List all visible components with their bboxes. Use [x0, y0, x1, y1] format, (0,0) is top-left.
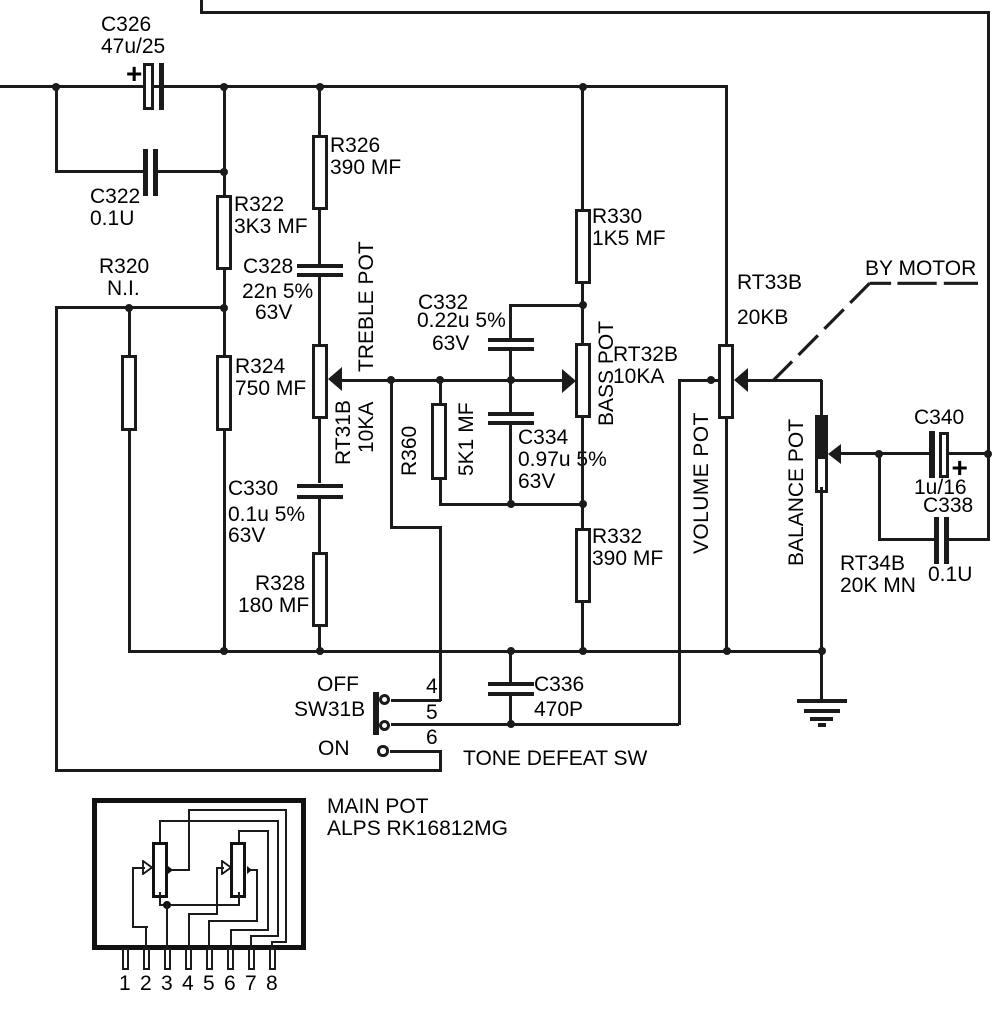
wire gang B wiper lead [251, 869, 258, 871]
node C340-right vertical [984, 450, 992, 458]
node main-R326 [316, 83, 324, 91]
capacitor C336 plate 2 [488, 692, 534, 696]
ground bar 1 [797, 699, 847, 703]
capacitor C340 label [914, 407, 964, 429]
switch contact pin4 [379, 694, 391, 706]
capacitor C326 label [101, 14, 165, 58]
capacitor C322 plate 2 [153, 149, 158, 196]
wire bottom bus y651 [128, 650, 823, 653]
label SW31B [294, 699, 365, 721]
wiper link horizontal y380 [340, 379, 563, 382]
main pot gang B body [230, 842, 246, 898]
pin 5 stub [206, 948, 213, 970]
wire C338 left lead [878, 538, 934, 541]
resistor R322 label [234, 194, 308, 238]
gang A input arrow [142, 860, 153, 875]
wire R360 top lead [439, 380, 442, 404]
resistor R330 [575, 209, 591, 284]
capacitor C328 plate 1 [297, 264, 343, 268]
potentiometer RT33B volume body [718, 344, 734, 419]
node main-R322 [220, 83, 228, 91]
capacitor C338 value [928, 564, 972, 586]
wire gang A wiper to pin8 [271, 941, 273, 949]
pin 8 stub [269, 948, 276, 970]
wire pin6 return horizontal y771 [55, 769, 442, 772]
label RT32B [613, 344, 678, 388]
label RT33B [737, 272, 802, 294]
capacitor C340 plus sign [952, 457, 968, 479]
capacitor C328 plate 2 [297, 273, 343, 277]
wire gang B wiper to pin5 [208, 920, 210, 949]
wire pin5 horizontal [391, 723, 679, 726]
wire pin6 return vertical x56 [55, 306, 58, 772]
label BALANCE POT vertical [786, 419, 808, 566]
wire R360 bottom lead [439, 480, 442, 506]
resistor R330 label [592, 206, 666, 250]
wire gang B top to pin6 [230, 929, 232, 949]
capacitor C334 label [518, 427, 568, 449]
pin numbers [119, 973, 131, 995]
ground bar 4 [818, 723, 826, 727]
capacitor C336 bottom lead [509, 696, 512, 725]
capacitor C332 plate 2 [488, 347, 534, 351]
resistor R360 [431, 403, 447, 480]
gang B input arrow [221, 860, 232, 875]
node bass top [579, 301, 587, 309]
label RT31B 10KA vertical [333, 400, 355, 465]
wire gang A top right drop [277, 820, 279, 937]
node balance-C338 [875, 450, 883, 458]
wire gang B arrow lead [216, 867, 224, 869]
node bus-balance [818, 647, 826, 655]
node C336-pin5 [507, 720, 515, 728]
ground bar 3 [810, 717, 833, 721]
resistor R322 [216, 195, 232, 270]
wire volume left stub [678, 379, 718, 382]
potentiometer RT34B balance body white [815, 456, 828, 493]
wire R360 bottom horizontal y504 [439, 503, 585, 506]
wire C332 bottom lead [509, 351, 512, 381]
pin 4 stub [185, 948, 192, 970]
wire gang A top horizontal [159, 820, 280, 822]
capacitor C330 plate 1 [297, 484, 343, 488]
wire gang A wiper right drop [285, 809, 287, 943]
label BY MOTOR [865, 258, 976, 280]
capacitor C338 plate 1 [934, 517, 939, 564]
wire pin4 horizontal [391, 699, 441, 702]
wire main horizontal bus y86 [0, 85, 726, 88]
wire volume wiper horizontal [747, 379, 822, 382]
wire C332 top lead [509, 304, 512, 339]
wire gang bottoms horizontal [159, 904, 240, 906]
potentiometer RT32B wiper arrow [562, 369, 576, 393]
wire drop vertical x440 to switch pin4 [439, 526, 442, 701]
wire gang B top bottom step [230, 929, 269, 931]
wire gang B bottom lead [238, 892, 240, 906]
wire pin6 corner vertical x440 [439, 750, 442, 772]
wire R324 bottom lead [223, 431, 226, 653]
capacitor C332 label [418, 292, 468, 314]
node bus-R324 [220, 647, 228, 655]
switch contact pin5 [379, 720, 391, 732]
resistor R328 label [255, 573, 305, 595]
wire gang B top lead [238, 830, 240, 842]
node bus-volume [723, 647, 731, 655]
resistor R328 value [238, 595, 309, 617]
potentiometer RT32B bass body [575, 343, 591, 418]
wire gang A wiper top horizontal [188, 809, 288, 811]
gang B wiper triangle [247, 866, 252, 874]
resistor R328 [312, 552, 328, 627]
capacitor C340 positive plate [939, 432, 949, 478]
wire C338 left vertical x879 [878, 452, 881, 541]
capacitor C334 value [518, 449, 607, 471]
capacitor C340 negative plate [929, 431, 935, 478]
wire gang B wiper drop [256, 869, 258, 922]
wire pin6 horizontal [390, 750, 442, 753]
wire gang A bottom lead [159, 892, 161, 906]
wire gang B top horizontal [238, 830, 270, 832]
label R360 vertical [399, 426, 421, 476]
gang A wiper triangle [168, 866, 173, 874]
capacitor C336 top lead [509, 651, 512, 683]
node volume left [707, 376, 715, 384]
potentiometer RT34B wiper arrow [828, 444, 841, 464]
capacitor C330 plate 2 [297, 495, 343, 499]
wire R330 to bass pot [581, 284, 584, 343]
resistor R332 label [592, 526, 663, 570]
wire C326 right to junction [163, 85, 224, 88]
node bus-R332 [579, 647, 587, 655]
capacitor C334 voltage [518, 471, 555, 493]
wire top bus corner vertical [200, 0, 203, 13]
node R322-R324 [220, 304, 228, 312]
wire gang A arrow step [132, 926, 148, 928]
node main-R330 [579, 83, 587, 91]
label 20KB [737, 307, 788, 329]
capacitor C334 plate 2 [488, 421, 534, 425]
wire top bus horizontal [200, 11, 990, 14]
node main-C322 left [52, 83, 60, 91]
wire R330 top lead [581, 85, 584, 210]
pin 6 stub [227, 948, 234, 970]
capacitor C326 positive plate [143, 63, 154, 110]
node R322-R324 line left [125, 304, 133, 312]
label VOLUME POT vertical [691, 412, 713, 554]
capacitor C338 label [923, 495, 973, 517]
capacitor C322 label [90, 186, 140, 230]
resistor R320 [121, 355, 137, 431]
wire gang B arrow step [188, 913, 218, 915]
label TREBLE POT vertical [356, 241, 378, 372]
capacitor C326 plus sign [126, 63, 142, 85]
label 5K1 MF vertical [456, 402, 478, 476]
pin 3 stub [164, 948, 171, 970]
potentiometer RT31B treble body [312, 344, 328, 419]
wire gang B arrow to pin4 [188, 913, 190, 950]
resistor R326 [312, 135, 328, 210]
resistor R326 label [330, 135, 401, 179]
capacitor C330 label [228, 478, 278, 500]
node wiper-R360 [436, 376, 444, 384]
wire C334 top lead [509, 380, 512, 412]
capacitor C330 value [228, 504, 305, 526]
wire C322 right lead [158, 170, 225, 173]
wire pin5 riser x679 [678, 380, 681, 725]
resistor R320 label N.I. [107, 278, 140, 300]
resistor R332 [575, 528, 591, 603]
resistor R320 label [99, 256, 149, 278]
wire C334 bottom lead [509, 425, 512, 504]
wire gang A wiper bottom step [271, 941, 287, 943]
capacitor C330 voltage [228, 525, 265, 547]
capacitor C336 value [534, 699, 583, 721]
wire R326 top lead [318, 85, 321, 136]
capacitor C336 label [534, 674, 584, 696]
capacitor C326 negative plate [159, 63, 164, 110]
wire R332 bottom lead [581, 603, 584, 653]
node gang bottoms junction [163, 901, 171, 909]
node bus-C336 [507, 647, 515, 655]
wire C330 to R328 [318, 498, 321, 553]
wire node horizontal y307 [55, 306, 225, 309]
wire volume top vertical x726 [725, 85, 728, 344]
capacitor C328 value [242, 281, 313, 303]
wire R326 to C328 [318, 210, 321, 265]
wire drop horizontal y526 [390, 526, 442, 529]
capacitor C334 plate 1 [488, 412, 534, 416]
MAIN POT BOX [92, 798, 306, 950]
wire bass pot bottom [581, 417, 584, 528]
node bus-R328 [316, 647, 324, 655]
label pin 5 [426, 702, 438, 724]
wire C340 right lead [949, 452, 988, 455]
wire C328 to treble pot [318, 277, 321, 345]
resistor R324 label [235, 356, 306, 400]
capacitor C332 plate 1 [488, 338, 534, 342]
wire gang A wiper lead [172, 869, 189, 871]
ground bar 2 [804, 709, 840, 713]
wire gang B top right drop [267, 830, 269, 931]
wire C332 top horizontal y305 [509, 304, 583, 307]
wire gang B arrow vertical [216, 867, 218, 915]
capacitor C328 label [243, 256, 293, 278]
wire balance bottom lead [820, 487, 823, 703]
wire C338 right lead [948, 538, 989, 541]
label pin 6 [426, 727, 438, 749]
node wiper-drop [387, 376, 395, 384]
wire balance wiper horizontal [841, 452, 929, 455]
ground stub [820, 651, 823, 701]
pin 2 stub [143, 948, 150, 970]
label MAIN POT [327, 796, 508, 840]
capacitor C336 plate 1 [488, 682, 534, 686]
wire junction to pin3 [166, 904, 168, 949]
wire R328 bottom lead [318, 627, 321, 653]
wire C322 left lead [55, 170, 144, 173]
wire gang A top lead [159, 820, 161, 842]
capacitor C332 value [417, 310, 506, 332]
wire gang A arrow lead [132, 867, 145, 869]
node wiper-C332 [507, 376, 515, 384]
wire R320 top lead [128, 306, 131, 356]
label RT34B 20K MN [840, 553, 916, 597]
wire vertical x56 main to C322 [55, 85, 58, 172]
pin 1 stub [122, 948, 129, 970]
wire gang A top bottom step [250, 935, 279, 937]
wire R320 bottom lead [128, 431, 131, 652]
label pin 4 [426, 676, 438, 698]
switch actuator bar [373, 692, 379, 735]
label TONE DEFEAT SW [463, 748, 647, 770]
wire right vertical from top bus to C340 node [987, 11, 990, 541]
wire vertical x224 main to R322 [223, 85, 226, 196]
switch contact pin6 [377, 745, 389, 757]
wire treble pot bottom to C330 [318, 419, 321, 483]
wire gang B wiper bottom step [208, 920, 258, 922]
main pot gang A body [152, 842, 168, 898]
node C322-R322 [220, 168, 228, 176]
potentiometer RT34B balance body black [815, 415, 828, 457]
resistor R324 [216, 355, 232, 431]
label ON [318, 738, 350, 760]
capacitor C332 voltage [432, 333, 469, 355]
capacitor C338 plate 2 [944, 517, 949, 564]
node C334 bottom [507, 500, 515, 508]
pin 7 stub [248, 948, 255, 970]
potentiometer RT33B wiper arrow [734, 368, 748, 392]
capacitor C322 plate 1 [143, 149, 148, 196]
wire vertical x224 R322 to R324 [223, 270, 226, 356]
dashed motor link diagonal and horizontal [760, 255, 1000, 390]
wire gang A arrow to pin2 [145, 926, 147, 950]
capacitor C328 voltage [255, 302, 292, 324]
wire volume bottom lead [725, 417, 728, 653]
wire gang A top to pin7 [250, 935, 252, 949]
wire gang A arrow vertical [132, 867, 134, 928]
label BASS POT vertical [596, 321, 618, 426]
label OFF [317, 674, 359, 696]
wire gang A wiper riser [188, 809, 190, 871]
wire balance top vertical x821 [820, 380, 823, 416]
capacitor C340 value [914, 477, 967, 499]
potentiometer RT31B wiper arrow [328, 367, 342, 391]
node bass bottom y504 [579, 500, 587, 508]
wire drop vertical x391 [390, 380, 393, 528]
